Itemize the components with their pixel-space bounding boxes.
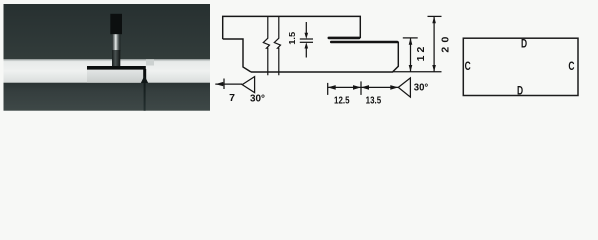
- svg-text:12.5: 12.5: [334, 95, 350, 107]
- svg-text:20: 20: [440, 33, 452, 53]
- svg-text:D: D: [521, 38, 527, 50]
- svg-text:1.5: 1.5: [287, 32, 297, 45]
- svg-text:C: C: [568, 61, 574, 73]
- svg-text:D: D: [517, 86, 523, 98]
- svg-text:30°: 30°: [414, 81, 429, 93]
- svg-text:7: 7: [229, 92, 235, 104]
- svg-text:12: 12: [415, 44, 427, 62]
- svg-text:30°: 30°: [250, 93, 265, 105]
- svg-text:13.5: 13.5: [366, 95, 382, 107]
- svg-text:C: C: [465, 61, 471, 73]
